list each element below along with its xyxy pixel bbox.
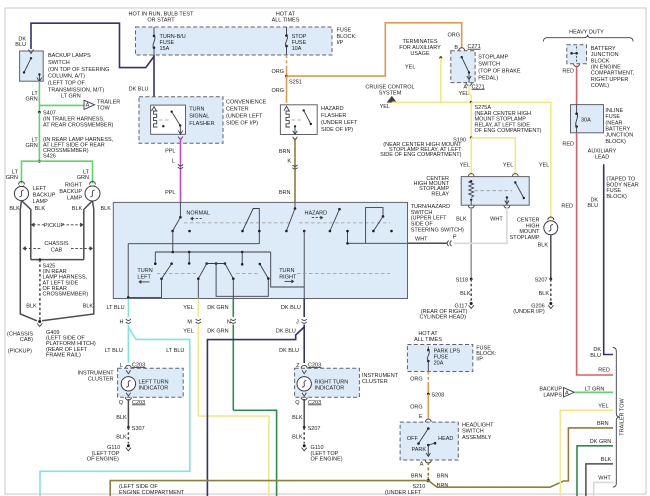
svg-text:GRN: GRN xyxy=(77,175,89,181)
svg-text:BLOCK): BLOCK) xyxy=(605,139,626,145)
svg-text:CYLINDER HEAD): CYLINDER HEAD) xyxy=(420,315,467,321)
svg-text:Q: Q xyxy=(119,400,124,406)
svg-text:CHASSIS: CHASSIS xyxy=(44,241,68,247)
svg-text:(TOP OF BRAKE: (TOP OF BRAKE xyxy=(478,69,521,75)
svg-text:BRN: BRN xyxy=(411,474,423,480)
wire ORG park fuse to S208 xyxy=(427,372,429,384)
stop fuse xyxy=(286,27,288,36)
svg-text:AT REAR CROSSMEMBER): AT REAR CROSSMEMBER) xyxy=(43,122,114,128)
svg-text:TURN-B/U: TURN-B/U xyxy=(160,34,186,40)
svg-text:K: K xyxy=(287,159,291,165)
svg-text:CONVENIENCE: CONVENIENCE xyxy=(226,100,267,106)
svg-text:GRN: GRN xyxy=(6,175,18,181)
svg-text:YEL: YEL xyxy=(503,163,513,169)
svg-text:G110: G110 xyxy=(311,445,324,451)
wire BLK S207 to G110 xyxy=(303,427,305,443)
wire LT GRN to trailer tow xyxy=(39,104,84,106)
svg-text:S251: S251 xyxy=(289,80,302,86)
switch interior hazard arm 2 xyxy=(338,208,341,211)
svg-text:BLK: BLK xyxy=(116,435,127,441)
svg-text:BLK: BLK xyxy=(116,415,127,421)
pickup span arrow xyxy=(33,224,46,226)
svg-text:LT GRN: LT GRN xyxy=(61,94,81,100)
wire YEL S275A to S190 xyxy=(470,102,472,138)
svg-text:BLK: BLK xyxy=(9,206,20,212)
svg-text:S426: S426 xyxy=(43,154,56,160)
svg-text:SIDE OF I/P): SIDE OF I/P) xyxy=(321,127,353,133)
svg-text:RED: RED xyxy=(562,142,574,148)
wire BLK left lamp outer ground xyxy=(20,201,37,321)
right backup lamp xyxy=(90,182,96,185)
stoplamp switch C271 A xyxy=(466,83,472,86)
wire BLK relay to S118 xyxy=(470,207,472,279)
svg-text:YEL: YEL xyxy=(405,65,415,71)
ground G110 left xyxy=(127,444,130,447)
svg-text:(UNDER I/P): (UNDER I/P) xyxy=(513,309,545,315)
svg-text:SWITCH: SWITCH xyxy=(462,429,484,435)
park lps fuse box xyxy=(407,345,472,372)
svg-text:LEFT: LEFT xyxy=(137,274,151,280)
wire DK BLU auxiliary lead xyxy=(604,164,613,354)
ground G206 xyxy=(549,302,552,305)
svg-text:COWL): COWL) xyxy=(591,83,610,89)
cruise control triangle xyxy=(388,97,396,103)
svg-text:OR START: OR START xyxy=(147,18,175,24)
svg-text:WHT: WHT xyxy=(490,217,503,223)
svg-text:BLU: BLU xyxy=(590,353,601,359)
fuse block I/P box xyxy=(136,27,333,55)
svg-text:PPL: PPL xyxy=(165,190,175,196)
svg-text:BATTERY: BATTERY xyxy=(591,46,616,52)
svg-text:BATTERY: BATTERY xyxy=(605,126,630,132)
splice S426 xyxy=(38,160,41,163)
wire BLK right lamp inner ground xyxy=(84,201,93,260)
splice S207 right xyxy=(303,426,306,429)
svg-text:LT BLU: LT BLU xyxy=(166,348,184,354)
svg-text:A: A xyxy=(86,103,90,109)
wire BRN S210 to trailer tow xyxy=(428,428,613,487)
svg-text:BLK: BLK xyxy=(35,206,46,212)
svg-text:TOW: TOW xyxy=(97,106,111,112)
svg-text:B: B xyxy=(454,45,458,51)
svg-text:S118: S118 xyxy=(456,278,468,284)
svg-text:BLK: BLK xyxy=(539,291,550,297)
svg-text:HAZARD: HAZARD xyxy=(321,106,344,112)
svg-text:DK GRN: DK GRN xyxy=(207,305,228,311)
svg-text:CENTER: CENTER xyxy=(226,107,249,113)
wire ORG stop fuse to S251 xyxy=(286,55,288,69)
svg-text:SIDE OF ENG COMPARTMENT): SIDE OF ENG COMPARTMENT) xyxy=(380,152,462,158)
wire BLK S118 to G117 xyxy=(470,279,472,302)
svg-text:RIGHT: RIGHT xyxy=(65,183,83,189)
svg-text:CAB): CAB) xyxy=(20,337,33,343)
wire BLK left indicator to S307 xyxy=(127,399,129,427)
svg-text:YEL: YEL xyxy=(460,163,470,169)
wire WHT relay to turn/hazard switch xyxy=(454,207,507,243)
switch interior normal contact path xyxy=(243,209,260,244)
convenience center box xyxy=(139,97,223,144)
svg-text:JUNCTION: JUNCTION xyxy=(591,52,619,58)
splice S407 xyxy=(38,111,41,114)
svg-text:INSTRUMENT: INSTRUMENT xyxy=(362,373,399,379)
svg-text:BLU: BLU xyxy=(15,42,26,48)
splice S208 xyxy=(427,393,430,396)
svg-text:HEAD: HEAD xyxy=(438,436,453,442)
svg-text:COLUMN, A/T): COLUMN, A/T) xyxy=(48,74,85,80)
svg-text:BLK: BLK xyxy=(292,415,303,421)
svg-text:BLK: BLK xyxy=(456,217,467,223)
splice S190 xyxy=(470,136,473,139)
switch interior J feed vertical xyxy=(303,230,306,233)
svg-text:A: A xyxy=(463,84,467,90)
switch interior left feed vertical xyxy=(128,243,259,245)
relay terminals xyxy=(468,174,474,177)
svg-text:S207: S207 xyxy=(535,278,548,284)
splice S207 xyxy=(549,278,552,281)
ground G117 xyxy=(470,302,473,305)
svg-text:FUSE: FUSE xyxy=(337,28,352,34)
svg-text:BRN: BRN xyxy=(597,421,609,427)
svg-text:20A: 20A xyxy=(434,361,444,367)
svg-text:FUSE: FUSE xyxy=(292,40,307,46)
svg-text:YEL: YEL xyxy=(539,163,549,169)
switch interior M N contacts xyxy=(205,262,208,265)
svg-text:BLK: BLK xyxy=(83,304,94,310)
backup lamps switch xyxy=(20,51,44,81)
svg-text:(UNDER LEFT: (UNDER LEFT xyxy=(385,490,422,496)
wire BLK S425 to G409 hidden xyxy=(39,260,41,320)
turn-b/u fuse xyxy=(153,27,155,36)
svg-text:CROSSMEMBER): CROSSMEMBER) xyxy=(43,292,89,298)
right turn indicator box xyxy=(295,368,360,397)
splice S210 xyxy=(427,479,430,482)
svg-text:TURN: TURN xyxy=(189,107,204,113)
ground G110 right xyxy=(303,444,306,447)
svg-text:RIGHT UPPER: RIGHT UPPER xyxy=(591,77,629,83)
svg-text:PPL: PPL xyxy=(165,149,175,155)
svg-text:L: L xyxy=(172,159,175,165)
svg-text:ORG: ORG xyxy=(271,69,284,75)
svg-text:BACKUP: BACKUP xyxy=(59,189,82,195)
svg-text:ORG: ORG xyxy=(271,88,284,94)
svg-text:DK BLU: DK BLU xyxy=(129,87,149,93)
svg-text:GRN: GRN xyxy=(25,97,37,103)
svg-text:RED: RED xyxy=(598,368,610,374)
heavy duty brace xyxy=(543,35,633,42)
svg-text:BLOCK): BLOCK) xyxy=(606,194,627,200)
wire YEL M to front turn lamps xyxy=(198,416,269,496)
svg-text:INLINE: INLINE xyxy=(605,108,623,114)
svg-text:BLK: BLK xyxy=(292,435,303,441)
switch interior hazard arm 3 xyxy=(366,208,383,244)
svg-text:ALL TIMES: ALL TIMES xyxy=(272,18,300,24)
wire BLK S307 to G110 xyxy=(127,427,129,443)
wire LT BLU branch to rear lamps xyxy=(40,327,190,496)
hazard flasher xyxy=(280,105,317,135)
wire BLK right indicator to S207 xyxy=(303,399,305,427)
svg-text:CAB: CAB xyxy=(51,248,63,254)
wire BLK trailer xyxy=(586,464,613,496)
svg-text:M: M xyxy=(187,320,192,326)
wire DK BLU exit J xyxy=(303,299,305,318)
splice S275A xyxy=(470,101,473,104)
svg-text:10A: 10A xyxy=(292,46,302,52)
svg-text:FUSE: FUSE xyxy=(160,40,175,46)
headlight switch assembly xyxy=(400,422,458,460)
svg-text:G110: G110 xyxy=(107,445,120,451)
turn signal flasher xyxy=(151,105,186,134)
wire ORG S208 to headlight switch xyxy=(427,394,429,419)
svg-text:30A: 30A xyxy=(581,118,591,124)
svg-text:P: P xyxy=(453,235,457,241)
svg-text:PARK: PARK xyxy=(412,447,427,453)
svg-text:INDICATOR: INDICATOR xyxy=(315,386,345,392)
svg-text:STOP: STOP xyxy=(292,34,307,40)
wire DK GRN N to front turn lamps xyxy=(233,410,276,496)
svg-text:COMPARTMENT,: COMPARTMENT, xyxy=(591,71,635,77)
svg-text:HEADLIGHT: HEADLIGHT xyxy=(462,423,494,429)
svg-text:RIGHT: RIGHT xyxy=(279,274,297,280)
ground G409 xyxy=(38,320,41,323)
left turn indicator lamp xyxy=(121,377,135,391)
splice S307 xyxy=(127,426,130,429)
svg-text:N: N xyxy=(227,320,231,326)
svg-text:CLUSTER: CLUSTER xyxy=(88,377,114,383)
svg-text:LAMP: LAMP xyxy=(33,199,48,205)
svg-text:ASSEMBLY: ASSEMBLY xyxy=(462,435,492,441)
svg-text:BRN: BRN xyxy=(279,190,291,196)
wire BRN S210 to engine compartment xyxy=(110,481,428,496)
left turn indicator box xyxy=(118,368,184,397)
wire YEL S275A to CHMSL lamp xyxy=(471,102,551,219)
wire WHT trailer xyxy=(594,482,613,496)
wire BLK S425 tie xyxy=(31,259,84,261)
wire BLK S207 to G206 xyxy=(550,279,552,302)
wire LT GRN S407 to S426 xyxy=(38,112,40,161)
svg-text:J: J xyxy=(296,320,299,326)
svg-text:FUSE: FUSE xyxy=(605,114,620,120)
svg-text:RIGHT TURN: RIGHT TURN xyxy=(315,379,349,385)
wire LT BLU exit H xyxy=(127,299,129,318)
svg-text:WHT: WHT xyxy=(415,236,428,242)
svg-text:I/P: I/P xyxy=(476,357,483,363)
svg-text:LEAD: LEAD xyxy=(595,155,609,161)
svg-text:STOPLAMP: STOPLAMP xyxy=(478,55,508,61)
svg-text:LT BLU: LT BLU xyxy=(106,305,124,311)
svg-text:TURN: TURN xyxy=(279,268,294,274)
label Q C203 right xyxy=(301,397,307,400)
svg-text:NORMAL: NORMAL xyxy=(186,211,210,217)
svg-text:RED: RED xyxy=(562,69,574,75)
svg-text:BLK: BLK xyxy=(460,291,471,297)
wire YEL A to S275A xyxy=(469,85,471,103)
svg-text:I/P: I/P xyxy=(337,40,344,46)
trailer tow brace xyxy=(613,348,620,488)
svg-text:LAMP: LAMP xyxy=(67,195,82,201)
svg-text:TURN: TURN xyxy=(137,268,152,274)
splice S118 xyxy=(470,278,473,281)
wire WHT connector into switch box xyxy=(408,242,448,244)
wire DK GRN trailer xyxy=(577,446,613,496)
right turn indicator lamp xyxy=(297,377,311,391)
svg-text:GRN: GRN xyxy=(25,143,37,149)
svg-text:BLK: BLK xyxy=(26,304,37,310)
svg-text:S307: S307 xyxy=(132,426,145,432)
wire YEL exit M xyxy=(197,299,199,318)
switch interior turn feed bus xyxy=(155,251,270,253)
svg-text:WHT: WHT xyxy=(598,476,611,482)
svg-text:BRN: BRN xyxy=(279,149,291,155)
wire RED battery to inline fuse xyxy=(576,66,578,105)
svg-text:CLUSTER: CLUSTER xyxy=(362,379,388,385)
svg-text:BRN: BRN xyxy=(437,474,449,480)
svg-text:YEL: YEL xyxy=(183,305,193,311)
center high mount stoplamp xyxy=(548,217,554,220)
svg-text:OF ENGINE): OF ENGINE) xyxy=(311,457,343,463)
svg-text:SWITCH: SWITCH xyxy=(48,60,70,66)
label Q C203 xyxy=(125,397,131,400)
wire LT GRN S426 to lamps xyxy=(22,161,93,183)
left backup lamp xyxy=(19,182,25,185)
svg-text:YEL: YEL xyxy=(459,91,469,97)
svg-text:SIGNAL: SIGNAL xyxy=(189,114,209,120)
mech linkage dashed row2 xyxy=(157,273,196,275)
svg-text:SWITCH: SWITCH xyxy=(478,62,500,68)
svg-text:H: H xyxy=(120,320,124,326)
wire YEL S190 to relay switch xyxy=(471,138,515,175)
wire DK BLU fuse to turn signal flasher xyxy=(153,55,155,105)
svg-text:(PICKUP): (PICKUP) xyxy=(8,349,32,355)
battery junction block xyxy=(567,45,587,64)
trailer tow triangle xyxy=(84,100,95,109)
wire ORG S251 to hazard flasher xyxy=(286,76,288,103)
svg-text:OFF: OFF xyxy=(407,436,419,442)
svg-text:STOPLAMP: STOPLAMP xyxy=(510,235,540,241)
svg-text:(LEFT TOP OF: (LEFT TOP OF xyxy=(48,81,86,87)
svg-text:DK GRN: DK GRN xyxy=(590,439,611,445)
splice S425 xyxy=(39,258,42,261)
svg-text:DK BLU: DK BLU xyxy=(281,305,301,311)
svg-text:OF ENG COMPARTMENT): OF ENG COMPARTMENT) xyxy=(475,128,542,134)
wire ORG S251 to stoplamp switch B xyxy=(287,23,462,76)
stoplamp switch xyxy=(451,51,475,83)
svg-text:ALL TIMES: ALL TIMES xyxy=(414,337,442,343)
switch interior wht feed xyxy=(348,242,408,244)
svg-text:(IN ENGINE: (IN ENGINE xyxy=(591,64,621,70)
svg-text:LT GRN: LT GRN xyxy=(585,386,605,392)
svg-text:DK BLU: DK BLU xyxy=(276,329,296,335)
svg-text:INDICATOR: INDICATOR xyxy=(139,386,169,392)
svg-text:PEDAL): PEDAL) xyxy=(478,76,498,82)
svg-text:OF ENGINE): OF ENGINE) xyxy=(87,457,119,463)
svg-text:ENGINE COMPARTMENT: ENGINE COMPARTMENT xyxy=(119,490,185,496)
wire YEL S190 to relay coil xyxy=(470,138,472,175)
svg-text:RED: RED xyxy=(561,204,573,210)
svg-text:HEAVY DUTY: HEAVY DUTY xyxy=(569,30,604,36)
svg-text:LEFT: LEFT xyxy=(33,186,47,192)
svg-text:LEFT TURN: LEFT TURN xyxy=(139,379,169,385)
svg-text:BRN: BRN xyxy=(437,483,449,489)
svg-text:A: A xyxy=(565,390,569,396)
svg-text:SYSTEM: SYSTEM xyxy=(379,91,402,97)
chassis cab span arrow xyxy=(25,247,43,249)
svg-text:15A: 15A xyxy=(160,46,170,52)
svg-text:ORG: ORG xyxy=(410,377,423,383)
svg-text:FLASHER: FLASHER xyxy=(321,113,346,119)
svg-text:FRAME RAIL): FRAME RAIL) xyxy=(46,352,81,358)
svg-text:S208: S208 xyxy=(431,393,444,399)
svg-text:INSTRUMENT: INSTRUMENT xyxy=(78,371,115,377)
svg-text:ORG: ORG xyxy=(447,33,460,39)
svg-text:S207: S207 xyxy=(308,426,321,432)
wire BLK right lamp outer ground xyxy=(42,201,94,321)
svg-text:BLOCK:: BLOCK: xyxy=(337,34,358,40)
svg-text:BLK: BLK xyxy=(101,206,112,212)
svg-text:BLU: BLU xyxy=(587,203,598,209)
switch interior hazard arm xyxy=(294,202,296,208)
svg-text:JUNCTION: JUNCTION xyxy=(605,133,633,139)
wire YEL trailer xyxy=(560,410,613,496)
wire LT GRN backup lamps to trailer tow xyxy=(575,391,614,393)
terminates stub dot xyxy=(439,56,442,59)
svg-text:TRAILER TOW: TRAILER TOW xyxy=(620,398,626,436)
svg-text:YEL: YEL xyxy=(183,329,193,335)
wire DK BLU branch to rear lamps xyxy=(207,327,304,496)
wire YEL cruise to S275A xyxy=(392,101,471,103)
svg-text:(UNDER LEFT: (UNDER LEFT xyxy=(226,114,263,120)
wire PPL flasher to switch xyxy=(180,138,182,202)
svg-text:ORG: ORG xyxy=(410,404,423,410)
mech linkage dashed row1 xyxy=(184,222,292,224)
svg-text:YEL: YEL xyxy=(598,404,608,410)
wire DK BLU from backup lamps switch to fuse xyxy=(31,23,154,67)
svg-text:(ON TOP OF STEERING: (ON TOP OF STEERING xyxy=(48,67,109,73)
wire BRN hazard flasher to switch xyxy=(294,138,296,202)
svg-text:Q: Q xyxy=(295,400,300,406)
svg-text:USAGE: USAGE xyxy=(410,51,430,57)
wire RED inline fuse to trailer tow xyxy=(577,133,613,375)
relay bottom terminals xyxy=(468,205,474,208)
svg-text:PICKUP: PICKUP xyxy=(44,223,65,229)
svg-text:(UNDER LEFT: (UNDER LEFT xyxy=(321,120,358,126)
svg-text:BACKUP LAMPS: BACKUP LAMPS xyxy=(48,53,91,59)
svg-text:BLK: BLK xyxy=(601,457,612,463)
wire BLK left lamp inner ground xyxy=(22,201,31,260)
inline fuse 30A xyxy=(571,105,604,133)
switch interior normal arm xyxy=(179,216,182,219)
turn/hazard switch box xyxy=(113,202,407,298)
splice S251 xyxy=(285,75,288,78)
wire LT GRN switch to S407 xyxy=(38,81,40,112)
svg-text:(NEAR: (NEAR xyxy=(605,120,622,126)
svg-text:A: A xyxy=(420,461,424,467)
svg-text:LAMPS: LAMPS xyxy=(543,392,562,398)
wire YEL terminates stub xyxy=(440,58,442,103)
wire DK GRN exit N xyxy=(232,299,234,318)
svg-text:BLK: BLK xyxy=(538,243,549,249)
switch interior turn right arm xyxy=(259,263,262,266)
svg-text:HAZARD: HAZARD xyxy=(305,211,328,217)
center high mount stoplamp relay xyxy=(461,177,529,206)
svg-text:DK GRN: DK GRN xyxy=(207,329,228,335)
switch interior turn left arm xyxy=(170,262,173,265)
svg-text:E: E xyxy=(419,414,423,420)
wire BLK CHMSL to S207 xyxy=(550,235,552,279)
wire LT BLU H to left indicator xyxy=(127,325,129,364)
svg-text:SIDE OF I/P): SIDE OF I/P) xyxy=(226,121,258,127)
svg-text:LT BLU: LT BLU xyxy=(105,348,123,354)
wire BRN headlight switch to S210 xyxy=(427,462,429,477)
